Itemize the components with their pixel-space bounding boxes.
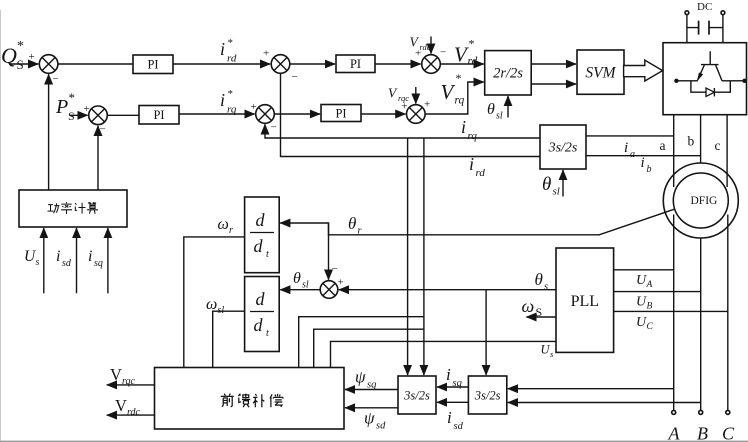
- wire Qs feedback up to J1: [48, 74, 50, 190]
- transistor Q1 bar: [701, 64, 719, 66]
- DFIG rotor inner circle: [673, 173, 728, 228]
- sign plus at J4: [251, 101, 257, 113]
- sign minus at J2: [100, 124, 106, 136]
- label isd at power calc: [56, 248, 72, 269]
- wire Us from PLL to feedforward: [331, 341, 557, 367]
- wire collector right: [722, 80, 730, 82]
- svg-text:3s/2s: 3s/2s: [474, 389, 501, 403]
- wire stator phase C: [727, 215, 729, 411]
- label theta-sl at 2r/2s: [487, 101, 503, 122]
- label rotor terminal a: [660, 138, 666, 153]
- label Vrd*: [454, 37, 478, 68]
- wire isq: [437, 386, 468, 388]
- 3s/2s block (stator flux): [398, 376, 436, 414]
- svg-text:U: U: [636, 315, 647, 330]
- transistor Q1 collector diagonal: [716, 65, 723, 81]
- svg-text:rd: rd: [227, 53, 237, 65]
- svg-text:s: s: [36, 257, 40, 268]
- capacitor C1: [687, 21, 723, 35]
- wire theta-s drop to current 3s/2s: [485, 290, 487, 375]
- wire UA: [614, 269, 674, 271]
- CJK text suan (power calc char 4): [87, 202, 98, 214]
- svg-text:PI: PI: [147, 58, 158, 72]
- transistor Q1 emitter diagonal with arrow: [697, 65, 704, 82]
- label psi-sd: [364, 409, 386, 432]
- d/dt block 2: [245, 277, 280, 352]
- wire emitter left: [691, 80, 698, 82]
- svg-text:sd: sd: [376, 421, 386, 432]
- svg-text:θ: θ: [487, 101, 495, 118]
- svg-text:SVM: SVM: [585, 65, 616, 82]
- svg-text:+: +: [338, 277, 344, 289]
- svg-text:sd: sd: [62, 258, 72, 269]
- wire 2r/2s to SVM upper: [531, 63, 576, 65]
- wire PI4 to J6: [361, 113, 405, 115]
- label theta-sl at J7: [293, 270, 309, 291]
- svg-text:ω: ω: [522, 296, 535, 316]
- svg-text:3s/2s: 3s/2s: [548, 141, 578, 156]
- svg-text:sl: sl: [218, 305, 225, 316]
- wire ib: [586, 155, 701, 157]
- wire Ps* input: [70, 114, 88, 116]
- label ird feedback: [469, 154, 485, 179]
- label isd between blocks: [447, 408, 464, 432]
- wire theta-s from PLL to J7: [339, 289, 556, 291]
- left edge faint strip: [0, 10, 1, 442]
- svg-text:U: U: [636, 273, 647, 288]
- wire diode branch: [691, 81, 730, 92]
- node dot right: [730, 79, 746, 83]
- wire rotor phase c drop: [726, 115, 728, 187]
- svg-text:U: U: [636, 295, 647, 310]
- sign minus at J7: [332, 263, 338, 275]
- label Vrdc small: [410, 35, 431, 53]
- wire J7 to d/dt2: [280, 289, 320, 291]
- label Ps*: [55, 90, 75, 123]
- wire PI3 to J5: [375, 63, 421, 65]
- svg-text:b: b: [647, 164, 652, 175]
- diode D1: [706, 88, 714, 96]
- label ia: [624, 140, 635, 160]
- wire phase A tap to current 3s/2s: [508, 388, 674, 390]
- wire ia: [586, 135, 674, 137]
- wire omega-s output from PLL: [526, 316, 556, 318]
- svg-text:*: *: [17, 39, 24, 54]
- DC terminal left: [685, 11, 689, 15]
- label Vrqc output: [110, 365, 136, 387]
- svg-text:d: d: [256, 289, 266, 309]
- CJK text bu (feedforward char 3): [253, 394, 264, 407]
- svg-text:rq: rq: [455, 95, 465, 107]
- label rotor terminal c: [715, 138, 721, 153]
- label UC: [636, 315, 654, 332]
- svg-text:c: c: [715, 138, 721, 153]
- label Vrq*: [441, 71, 465, 107]
- svg-text:ω: ω: [218, 216, 229, 233]
- sign minus at J3: [292, 71, 298, 83]
- label ib: [641, 155, 652, 175]
- wire PI2 to J4: [179, 113, 255, 115]
- label UB: [636, 295, 653, 312]
- svg-text:a: a: [630, 149, 635, 160]
- wire rotor phase a drop: [673, 115, 675, 187]
- label DC: [697, 1, 712, 13]
- sign minus at J1: [53, 73, 59, 85]
- svg-text:d: d: [256, 210, 266, 230]
- svg-text:t: t: [266, 249, 269, 260]
- wire Vrdc output: [107, 414, 155, 416]
- svg-text:sq: sq: [453, 378, 462, 389]
- label theta-r: [348, 214, 363, 237]
- wire J3 to PI3: [290, 63, 335, 65]
- wire theta-r from DFIG to d/dt1: [280, 209, 675, 235]
- wire J4 to PI4: [274, 113, 320, 115]
- CJK text chang (feedforward char 4): [270, 394, 283, 407]
- svg-text:rd: rd: [468, 56, 478, 68]
- CJK text lv (power calc char 2): [61, 202, 72, 214]
- label irq*: [220, 88, 237, 116]
- label irq feedback: [461, 117, 477, 142]
- summing junction J4 (irq): [256, 105, 275, 124]
- wire Qs* input: [9, 63, 38, 65]
- wire J2 to PI2: [107, 114, 139, 116]
- wire rotor phase b drop: [700, 115, 702, 163]
- svg-text:DC: DC: [697, 1, 712, 13]
- svg-text:sd: sd: [454, 421, 464, 432]
- node dot left: [674, 79, 691, 83]
- svg-text:r: r: [229, 225, 233, 236]
- PI block U4 (q current loop): [321, 105, 361, 122]
- svg-text:C: C: [722, 424, 735, 442]
- svg-text:PI: PI: [335, 107, 346, 121]
- wire Vrqc output: [107, 384, 155, 386]
- wire psi-sq: [345, 389, 398, 391]
- wire theta-r branch down to J7: [328, 223, 330, 280]
- svg-text:i: i: [220, 90, 225, 110]
- svg-text:+: +: [402, 101, 408, 113]
- svg-text:i: i: [469, 154, 474, 174]
- label isq between blocks: [446, 365, 462, 389]
- svg-text:sq: sq: [367, 380, 376, 391]
- label theta-s: [535, 270, 549, 293]
- svg-text:Q: Q: [1, 43, 17, 68]
- wire isd: [437, 401, 468, 403]
- svg-text:−: −: [332, 263, 338, 275]
- svg-text:*: *: [69, 90, 76, 105]
- svg-text:sl: sl: [496, 111, 503, 122]
- transistor Q1 collector lead: [709, 51, 711, 64]
- label Us at power calc: [24, 248, 40, 268]
- svg-text:*: *: [469, 37, 475, 51]
- svg-text:−: −: [440, 47, 446, 59]
- wire irq feedback to J4: [265, 124, 540, 138]
- wire theta-sl up into 3s/2s: [562, 170, 564, 197]
- svg-text:θ: θ: [542, 174, 551, 195]
- svg-text:*: *: [228, 88, 234, 100]
- svg-text:d: d: [254, 315, 264, 335]
- svg-text:+: +: [251, 101, 257, 113]
- PLL block: [556, 248, 614, 352]
- label Vrqc small: [388, 86, 409, 104]
- svg-text:a: a: [660, 138, 666, 153]
- svg-text:i: i: [624, 140, 628, 156]
- bottom edge strip: [0, 441, 748, 442]
- sign plus at J3: [263, 48, 269, 60]
- wire J5 to 2r/2s: [440, 63, 483, 65]
- label omega-s: [522, 296, 543, 319]
- wire Vrqc drop into J6: [415, 87, 417, 104]
- wire vertical drop 2 to flux 3s/2s: [423, 138, 425, 375]
- svg-text:sl: sl: [302, 280, 309, 291]
- svg-text:i: i: [88, 248, 92, 265]
- sign minus at J4: [271, 122, 277, 134]
- svg-text:V: V: [110, 365, 122, 384]
- svg-text:DFIG: DFIG: [691, 195, 718, 207]
- svg-text:rq: rq: [468, 130, 478, 142]
- CJK text kui (feedforward char 2): [238, 394, 250, 408]
- summing junction J6 (Vrqc): [407, 105, 426, 124]
- svg-text:−: −: [271, 122, 277, 134]
- power calculation block: [19, 190, 127, 227]
- wire J6 to 2r/2s lower input: [425, 82, 484, 114]
- wire isq input to power calc: [107, 228, 109, 293]
- wire phase B tap to current 3s/2s: [508, 402, 701, 404]
- summing junction J2 (Ps): [89, 106, 108, 125]
- svg-text:+: +: [424, 99, 430, 111]
- svg-text:b: b: [688, 134, 695, 149]
- sign plus at J2: [84, 103, 90, 115]
- svg-text:−: −: [53, 73, 59, 85]
- svg-text:*: *: [456, 71, 462, 85]
- summing junction J3 (ird): [271, 55, 290, 74]
- svg-text:sl: sl: [553, 186, 560, 198]
- label grid phase B: [697, 424, 708, 442]
- svg-text:i: i: [56, 248, 60, 265]
- CJK text qian (feedforward char 1): [221, 394, 234, 407]
- svg-text:+: +: [263, 48, 269, 60]
- label grid phase A: [668, 424, 681, 442]
- svg-text:i: i: [446, 365, 451, 384]
- wire isd input to power calc: [76, 228, 78, 293]
- label omega-sl: [206, 296, 224, 316]
- sign minus at J5: [440, 47, 446, 59]
- wire branch line 2 to feedforward: [314, 329, 424, 367]
- wire PI1 to J3: [173, 63, 270, 65]
- wire ird feedback to J3: [281, 73, 541, 156]
- svg-text:PI: PI: [153, 108, 164, 122]
- svg-text:*: *: [228, 37, 234, 49]
- sign plus right at J6: [424, 99, 430, 111]
- svg-text:−: −: [100, 124, 106, 136]
- svg-text:θ: θ: [535, 270, 543, 289]
- 3s/2s block (rotor current): [540, 125, 586, 169]
- 3s/2s block (stator current): [468, 376, 506, 414]
- CJK text gong (power calc char 1): [48, 203, 60, 213]
- svg-text:rq: rq: [227, 104, 237, 116]
- svg-text:A: A: [668, 424, 681, 442]
- PI block U2 (outer P loop): [139, 106, 179, 125]
- wire vertical drop 1 to flux 3s/2s: [407, 138, 409, 375]
- grid terminal B: [699, 410, 703, 414]
- svg-text:ψ: ψ: [364, 409, 375, 428]
- svg-text:B: B: [697, 424, 708, 442]
- svg-text:s: s: [544, 282, 548, 293]
- label omega-r: [218, 216, 234, 236]
- label UA: [636, 273, 653, 290]
- 2r/2s transform block: [485, 51, 532, 95]
- wire omega-sl to feedforward: [213, 311, 245, 367]
- svg-text:V: V: [115, 396, 127, 415]
- label Qs*: [1, 39, 24, 72]
- svg-text:P: P: [55, 96, 68, 118]
- wire Vrdc drop into J5: [430, 37, 432, 54]
- svg-text:S: S: [68, 109, 75, 123]
- wire branch line 1 to feedforward: [299, 317, 424, 368]
- wire theta-sl up into 2r/2s: [507, 96, 509, 118]
- svg-text:θ: θ: [348, 214, 356, 233]
- label Vrdc output: [115, 396, 141, 418]
- CJK text ji (power calc char 3): [75, 203, 85, 214]
- wire psi-sd: [345, 407, 398, 409]
- svg-text:i: i: [447, 408, 452, 427]
- svg-text:2r/2s: 2r/2s: [493, 66, 523, 82]
- svg-text:PI: PI: [350, 57, 361, 71]
- svg-text:V: V: [441, 80, 456, 104]
- svg-text:B: B: [647, 302, 653, 312]
- sign plus at J5: [415, 48, 421, 60]
- label grid phase C: [722, 424, 735, 442]
- svg-text:t: t: [266, 328, 269, 339]
- summing junction J7 (theta sl): [320, 281, 338, 299]
- wire stator phase B: [700, 238, 702, 410]
- svg-text:rd: rd: [476, 167, 486, 179]
- svg-text:A: A: [646, 280, 653, 290]
- wire omega-r to feedforward: [184, 237, 245, 368]
- svg-text:s: s: [550, 349, 554, 359]
- svg-text:3s/2s: 3s/2s: [403, 389, 430, 403]
- wire UB: [614, 291, 701, 293]
- label theta-sl at 3s/2s: [542, 174, 560, 198]
- DC terminal right: [721, 11, 725, 15]
- svg-text:i: i: [641, 155, 645, 171]
- label isq at power calc: [88, 248, 103, 269]
- summing junction J1 (Qs): [39, 55, 58, 74]
- hollow arrow SVM to converter: [624, 60, 663, 81]
- grid terminal A: [672, 410, 676, 414]
- PI block U3 (d current loop): [336, 55, 375, 73]
- DFIG machine inner circle: [673, 173, 728, 228]
- wire Us input to power calc: [43, 228, 45, 293]
- svg-text:i: i: [461, 117, 466, 137]
- svg-text:i: i: [220, 39, 225, 59]
- sign plus at J1: [29, 51, 35, 63]
- svg-text:+: +: [84, 103, 90, 115]
- grid terminal C: [726, 410, 730, 414]
- svg-text:+: +: [415, 48, 421, 60]
- svg-text:d: d: [254, 236, 264, 256]
- svg-text:V: V: [388, 86, 398, 101]
- wire DC right lead: [722, 15, 724, 43]
- summing junction J5 (Vrdc): [422, 55, 441, 74]
- wire stator phase A: [673, 215, 675, 411]
- label Us at PLL: [541, 343, 555, 360]
- svg-text:ω: ω: [206, 296, 217, 313]
- label psi-sq: [355, 368, 376, 391]
- svg-text:rqc: rqc: [122, 376, 136, 387]
- feedforward compensation block: [155, 368, 345, 430]
- svg-text:sq: sq: [94, 258, 103, 269]
- svg-text:−: −: [292, 71, 298, 83]
- wire UC: [614, 310, 728, 312]
- svg-text:θ: θ: [293, 270, 301, 287]
- d/dt block 1: [245, 197, 280, 273]
- svg-text:S: S: [17, 57, 24, 72]
- svg-text:+: +: [29, 51, 35, 63]
- label ird*: [220, 37, 237, 65]
- svg-text:S: S: [536, 305, 543, 319]
- svg-text:ψ: ψ: [355, 368, 366, 387]
- wire Ps feedback up to J2: [97, 126, 99, 190]
- wire J1 to PI1: [58, 63, 133, 65]
- wire DC left lead: [686, 15, 688, 43]
- converter box: [663, 43, 747, 115]
- PI block U1 (outer Q loop): [133, 55, 173, 74]
- sign plus left at J6: [402, 101, 408, 113]
- sign plus at J7: [338, 277, 344, 289]
- svg-text:rdc: rdc: [127, 407, 141, 418]
- DFIG machine outer circle: [663, 163, 738, 238]
- svg-text:U: U: [541, 343, 551, 357]
- svg-text:PLL: PLL: [571, 293, 599, 310]
- SVM block: [577, 50, 624, 94]
- label rotor terminal b: [688, 134, 695, 149]
- wire 2r/2s to SVM lower: [531, 83, 576, 85]
- svg-text:C: C: [647, 322, 654, 332]
